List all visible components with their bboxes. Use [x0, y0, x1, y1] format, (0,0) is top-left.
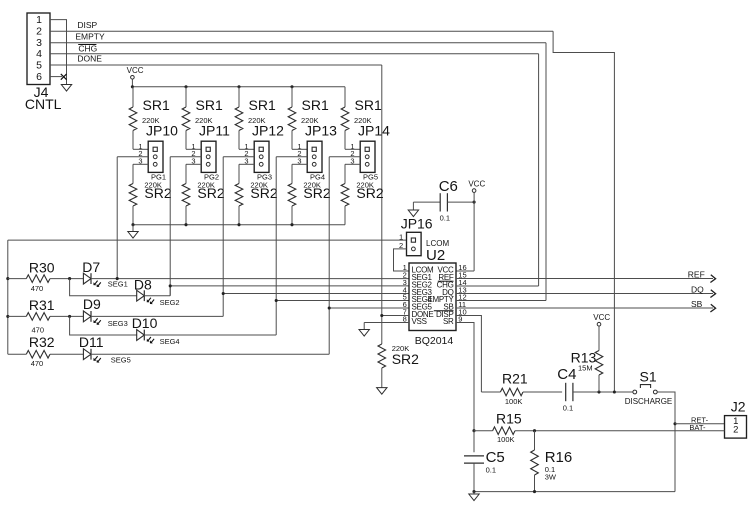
svg-text:DONE: DONE: [77, 54, 102, 64]
svg-text:SR1: SR1: [302, 97, 329, 113]
svg-text:VSS: VSS: [412, 317, 427, 326]
svg-text:100K: 100K: [497, 435, 515, 444]
svg-text:R15: R15: [496, 411, 522, 427]
svg-text:JP12: JP12: [252, 123, 284, 139]
svg-text:JP11: JP11: [199, 123, 230, 139]
svg-text:1: 1: [399, 232, 403, 241]
svg-text:D10: D10: [132, 315, 158, 331]
svg-text:U2: U2: [426, 247, 445, 264]
svg-text:VCC: VCC: [468, 179, 485, 188]
svg-text:4: 4: [36, 48, 42, 60]
svg-text:470: 470: [31, 284, 44, 293]
svg-text:VCC: VCC: [127, 66, 144, 75]
svg-text:2: 2: [733, 425, 738, 436]
svg-text:R32: R32: [29, 334, 55, 350]
svg-text:3W: 3W: [545, 472, 557, 481]
svg-text:SEG3: SEG3: [108, 319, 128, 328]
svg-text:CNTL: CNTL: [25, 96, 62, 112]
svg-text:EMPTY: EMPTY: [75, 32, 105, 42]
svg-text:R31: R31: [29, 297, 55, 313]
svg-text:5: 5: [36, 59, 42, 71]
svg-text:2: 2: [36, 26, 42, 38]
svg-text:JP16: JP16: [401, 216, 433, 232]
svg-text:R30: R30: [29, 260, 55, 276]
svg-text:D8: D8: [134, 277, 152, 293]
svg-text:SR2: SR2: [356, 185, 383, 201]
svg-text:JP10: JP10: [146, 123, 178, 139]
svg-text:0.1: 0.1: [486, 466, 496, 475]
svg-text:J2: J2: [731, 399, 746, 415]
svg-text:SR1: SR1: [143, 97, 170, 113]
svg-text:JP14: JP14: [358, 123, 390, 139]
svg-text:D9: D9: [83, 296, 101, 312]
svg-text:SEG4: SEG4: [160, 337, 180, 346]
svg-text:SR1: SR1: [196, 97, 223, 113]
svg-text:470: 470: [31, 359, 44, 368]
svg-text:SEG1: SEG1: [108, 279, 128, 288]
svg-text:100K: 100K: [505, 397, 523, 406]
svg-text:SEG2: SEG2: [160, 298, 180, 307]
svg-text:6: 6: [36, 71, 42, 83]
svg-text:S1: S1: [640, 369, 657, 385]
svg-text:0.1: 0.1: [440, 214, 450, 223]
svg-text:SR2: SR2: [392, 351, 419, 367]
svg-text:SR2: SR2: [144, 185, 171, 201]
svg-text:SR2: SR2: [303, 185, 330, 201]
svg-text:D11: D11: [79, 334, 104, 350]
svg-text:R21: R21: [502, 371, 528, 387]
svg-text:1: 1: [36, 14, 42, 26]
svg-text:C4: C4: [557, 366, 576, 383]
svg-text:SEG5: SEG5: [111, 356, 131, 365]
svg-text:DQ: DQ: [691, 285, 704, 295]
svg-text:SB: SB: [691, 299, 703, 309]
svg-text:SR2: SR2: [197, 185, 224, 201]
svg-text:D7: D7: [82, 259, 100, 275]
svg-text:SR: SR: [443, 317, 454, 326]
svg-text:VCC: VCC: [593, 313, 610, 322]
svg-text:SR1: SR1: [355, 97, 382, 113]
svg-text:DISP: DISP: [77, 20, 97, 30]
svg-text:BQ2014: BQ2014: [415, 335, 454, 347]
svg-text:SR1: SR1: [249, 97, 276, 113]
svg-text:REF: REF: [688, 270, 705, 280]
svg-text:C6: C6: [439, 178, 458, 195]
svg-text:R16: R16: [545, 449, 573, 466]
svg-text:15M: 15M: [578, 364, 593, 373]
svg-text:C5: C5: [486, 449, 505, 466]
svg-text:0.1: 0.1: [563, 404, 573, 413]
svg-text:DISCHARGE: DISCHARGE: [625, 397, 673, 406]
svg-text:JP13: JP13: [305, 123, 337, 139]
svg-text:SR2: SR2: [250, 185, 277, 201]
